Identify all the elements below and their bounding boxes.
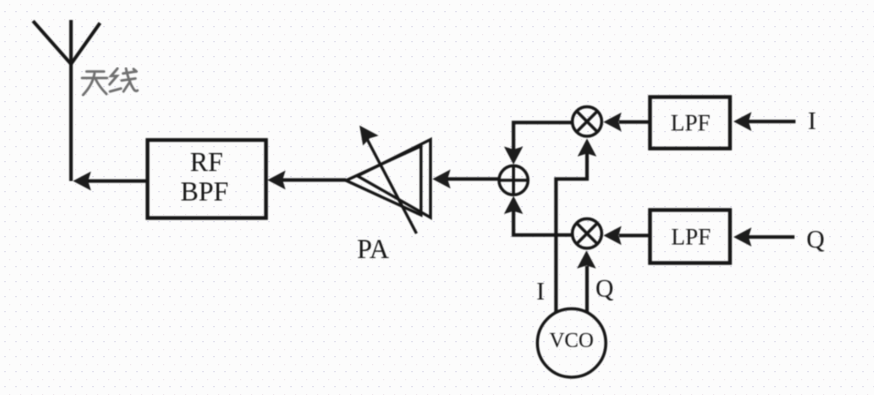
amplifier PA triangle back <box>358 140 431 218</box>
svg-text:I: I <box>808 108 816 135</box>
svg-text:VCO: VCO <box>549 328 593 352</box>
arrowhead into RF BPF <box>268 171 286 190</box>
mixer M2 (circle-X) <box>572 219 601 248</box>
svg-text:BPF: BPF <box>180 177 228 207</box>
wire PA output to RF BPF <box>281 178 346 182</box>
svg-text:Q: Q <box>806 227 824 254</box>
arrowhead into summer bottom <box>504 196 523 214</box>
wire summer output to PA <box>447 177 498 181</box>
mixer M1 (circle-X) <box>572 107 601 136</box>
wire I input to top LPF <box>748 120 796 124</box>
wire LPF bottom output to bottom mixer <box>619 234 650 238</box>
wire RF BPF output to antenna <box>88 179 148 183</box>
svg-text:I: I <box>536 279 544 306</box>
arrowhead into bottom LPF <box>734 228 752 247</box>
svg-text:Q: Q <box>595 276 613 303</box>
wire LPF top output to top mixer <box>619 120 650 124</box>
oscillator VCO circle <box>537 309 605 377</box>
arrowhead VCO I into top mixer <box>578 139 597 157</box>
wire top mixer output to summer <box>514 123 573 151</box>
arrowhead into antenna <box>73 172 91 191</box>
antenna <box>33 20 100 181</box>
filter U1 RF BPF box <box>148 140 267 218</box>
arrowhead into bottom mixer <box>604 226 622 245</box>
wire bottom mixer output to summer <box>514 211 573 235</box>
PA variable-gain arrow <box>366 137 417 234</box>
wire VCO Q to bottom mixer <box>585 266 589 313</box>
wire Q input to bottom LPF <box>748 235 795 239</box>
filter U2 LPF top box <box>650 97 730 149</box>
summer S1 circle-plus <box>499 166 528 195</box>
svg-text:LPF: LPF <box>671 225 711 250</box>
wire VCO I to top mixer <box>556 153 587 313</box>
label 天线 (antenna) drawn strokes <box>82 69 138 96</box>
filter U3 LPF bottom box <box>650 210 730 263</box>
arrowhead VCO Q into bottom mixer <box>577 251 596 269</box>
amplifier PA triangle front <box>346 146 421 215</box>
arrowhead into top LPF <box>734 112 752 131</box>
arrowhead into PA <box>433 170 451 189</box>
arrowhead into top mixer <box>604 113 622 132</box>
svg-text:RF: RF <box>190 147 223 177</box>
svg-text:PA: PA <box>357 234 390 264</box>
svg-text:LPF: LPF <box>671 111 711 136</box>
arrowhead into summer top <box>504 147 523 165</box>
